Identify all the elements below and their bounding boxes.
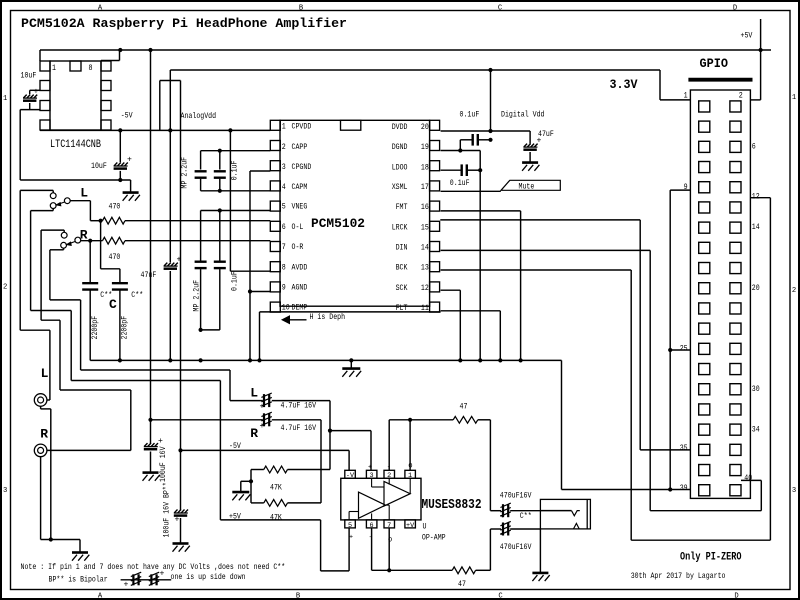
svg-text:CPGND: CPGND: [292, 164, 312, 172]
svg-text:1: 1: [282, 124, 286, 132]
svg-text:8: 8: [282, 264, 286, 272]
svg-text:+V: +V: [406, 522, 415, 530]
svg-text:1: 1: [3, 95, 7, 103]
svg-text:+: +: [500, 512, 505, 521]
svg-text:L: L: [80, 186, 88, 201]
svg-text:FMT: FMT: [396, 204, 408, 212]
svg-text:3.3V: 3.3V: [610, 77, 638, 92]
svg-text:17: 17: [421, 184, 429, 192]
svg-text:one is up side down: one is up side down: [171, 574, 246, 582]
svg-text:2200pF: 2200pF: [121, 316, 129, 340]
svg-text:4.7uF 16V: 4.7uF 16V: [281, 402, 317, 410]
svg-text:20: 20: [421, 124, 429, 132]
svg-text:0.1uF: 0.1uF: [450, 180, 470, 188]
svg-text:1: 1: [684, 93, 688, 101]
svg-text:40: 40: [744, 475, 752, 483]
svg-text:30: 30: [752, 386, 760, 394]
svg-text:Note : If pin 1 and 7 does not: Note : If pin 1 and 7 does not have any …: [21, 564, 286, 572]
svg-text:AVDD: AVDD: [292, 264, 308, 272]
svg-text:14: 14: [421, 244, 429, 252]
svg-text:D: D: [733, 4, 737, 12]
svg-text:Only PI-ZERO: Only PI-ZERO: [680, 551, 742, 563]
svg-text:34: 34: [752, 426, 760, 434]
svg-text:+: +: [260, 422, 265, 431]
svg-text:19: 19: [421, 144, 429, 152]
svg-text:-V: -V: [346, 472, 355, 480]
svg-text:100uF 16V BP**: 100uF 16V BP**: [163, 482, 171, 537]
svg-text:O-L: O-L: [292, 224, 304, 232]
svg-text:470: 470: [109, 254, 121, 262]
svg-text:CAPP: CAPP: [292, 144, 308, 152]
svg-text:B: B: [296, 593, 301, 600]
svg-text:470uF16V: 470uF16V: [500, 493, 532, 501]
svg-text:14: 14: [752, 224, 760, 232]
svg-text:47K: 47K: [270, 484, 282, 492]
svg-text:5: 5: [282, 204, 286, 212]
svg-text:25: 25: [680, 346, 688, 354]
svg-text:15: 15: [421, 224, 429, 232]
svg-text:18: 18: [421, 164, 429, 172]
svg-text:0.1uF: 0.1uF: [232, 160, 240, 180]
svg-text:GPIO: GPIO: [700, 56, 729, 71]
svg-text:DVDD: DVDD: [392, 124, 408, 132]
svg-text:47uF: 47uF: [538, 131, 554, 139]
svg-text:10uF: 10uF: [91, 163, 107, 171]
svg-text:BP** is Bipolar: BP** is Bipolar: [49, 577, 108, 585]
svg-text:+: +: [500, 530, 505, 539]
svg-text:9: 9: [684, 184, 688, 192]
svg-text:MP 2.2uF: MP 2.2uF: [194, 280, 202, 312]
svg-text:-5V: -5V: [121, 113, 133, 121]
svg-text:4.7uF 16V: 4.7uF 16V: [281, 425, 317, 433]
svg-text:+: +: [127, 156, 132, 165]
svg-text:2: 2: [282, 144, 286, 152]
svg-text:30th Apr 2017 by Lagarto: 30th Apr 2017 by Lagarto: [631, 573, 726, 581]
svg-text:+5V: +5V: [741, 33, 753, 41]
svg-text:6: 6: [752, 144, 756, 152]
svg-text:3: 3: [792, 487, 796, 495]
svg-text:MP 2.2uF: MP 2.2uF: [181, 157, 189, 189]
svg-text:2: 2: [792, 287, 796, 295]
svg-text:B: B: [299, 4, 304, 12]
svg-text:Mute: Mute: [519, 183, 535, 191]
svg-text:OP-AMP: OP-AMP: [422, 535, 446, 543]
svg-text:100uF 16V: 100uF 16V: [160, 446, 168, 482]
svg-text:L: L: [41, 366, 49, 381]
svg-text:47K: 47K: [270, 514, 282, 522]
svg-text:2: 2: [3, 284, 7, 292]
svg-text:+: +: [34, 88, 39, 97]
svg-text:47uF: 47uF: [141, 272, 157, 280]
svg-text:12: 12: [421, 285, 429, 293]
svg-text:0.1uF: 0.1uF: [232, 271, 240, 291]
svg-text:+: +: [175, 516, 180, 525]
svg-text:10uF: 10uF: [21, 72, 37, 80]
svg-text:47: 47: [458, 581, 466, 589]
svg-text:1: 1: [52, 65, 56, 73]
svg-text:CPVDD: CPVDD: [292, 124, 312, 132]
svg-text:470uF16V: 470uF16V: [500, 544, 532, 552]
svg-text:7: 7: [282, 244, 286, 252]
svg-text:LTC1144CNB: LTC1144CNB: [50, 139, 101, 151]
svg-text:LRCK: LRCK: [392, 224, 408, 232]
svg-text:A: A: [98, 4, 103, 12]
svg-text:3: 3: [282, 164, 286, 172]
svg-text:+: +: [260, 403, 265, 412]
svg-text:O-R: O-R: [292, 244, 304, 252]
svg-text:8: 8: [89, 65, 93, 73]
svg-text:470: 470: [109, 204, 121, 212]
svg-text:39: 39: [680, 485, 688, 493]
svg-text:5: 5: [348, 522, 352, 530]
svg-text:R: R: [250, 426, 258, 441]
svg-text:0.1uF: 0.1uF: [460, 112, 480, 120]
svg-text:35: 35: [680, 445, 688, 453]
svg-text:R: R: [40, 427, 48, 442]
svg-text:C**: C**: [520, 513, 532, 521]
svg-text:MUSES8832: MUSES8832: [422, 498, 482, 513]
svg-text:+: +: [124, 581, 129, 590]
svg-text:VNEG: VNEG: [292, 204, 308, 212]
svg-text:+: +: [158, 437, 163, 446]
svg-text:12: 12: [752, 194, 760, 202]
svg-text:XSML: XSML: [392, 184, 408, 192]
svg-text:CAPM: CAPM: [292, 184, 308, 192]
svg-text:2: 2: [739, 93, 743, 101]
svg-text:C**: C**: [131, 292, 143, 300]
svg-text:DGND: DGND: [392, 144, 408, 152]
svg-text:BCK: BCK: [396, 265, 408, 273]
svg-text:DIN: DIN: [396, 244, 408, 252]
svg-text:D: D: [734, 593, 738, 600]
svg-text:AnalogVdd: AnalogVdd: [181, 113, 217, 121]
svg-text:16: 16: [421, 204, 429, 212]
svg-text:PCM5102: PCM5102: [311, 216, 365, 231]
svg-text:+: +: [160, 570, 165, 579]
svg-text:2200pF: 2200pF: [92, 316, 100, 340]
svg-text:4: 4: [282, 184, 286, 192]
svg-text:47: 47: [460, 403, 468, 411]
svg-text:SCK: SCK: [396, 285, 408, 293]
svg-text:C: C: [498, 593, 503, 600]
svg-text:LDOO: LDOO: [392, 164, 408, 172]
svg-text:AGND: AGND: [292, 285, 308, 293]
svg-text:20: 20: [752, 285, 760, 293]
svg-text:3: 3: [3, 487, 7, 495]
svg-text:Digital Vdd: Digital Vdd: [501, 112, 545, 120]
svg-text:U: U: [423, 524, 427, 532]
svg-text:C: C: [109, 297, 117, 312]
svg-text:L: L: [250, 386, 258, 401]
svg-text:13: 13: [421, 265, 429, 273]
svg-text:PCM5102A Raspberry Pi HeadPhon: PCM5102A Raspberry Pi HeadPhone Amplifie…: [21, 16, 347, 31]
svg-text:A: A: [98, 593, 103, 600]
svg-text:1: 1: [792, 94, 796, 102]
svg-text:H is Deph: H is Deph: [310, 314, 346, 322]
svg-text:9: 9: [282, 285, 286, 293]
svg-text:C: C: [498, 4, 503, 12]
svg-text:+: +: [349, 533, 353, 541]
svg-text:6: 6: [282, 224, 286, 232]
